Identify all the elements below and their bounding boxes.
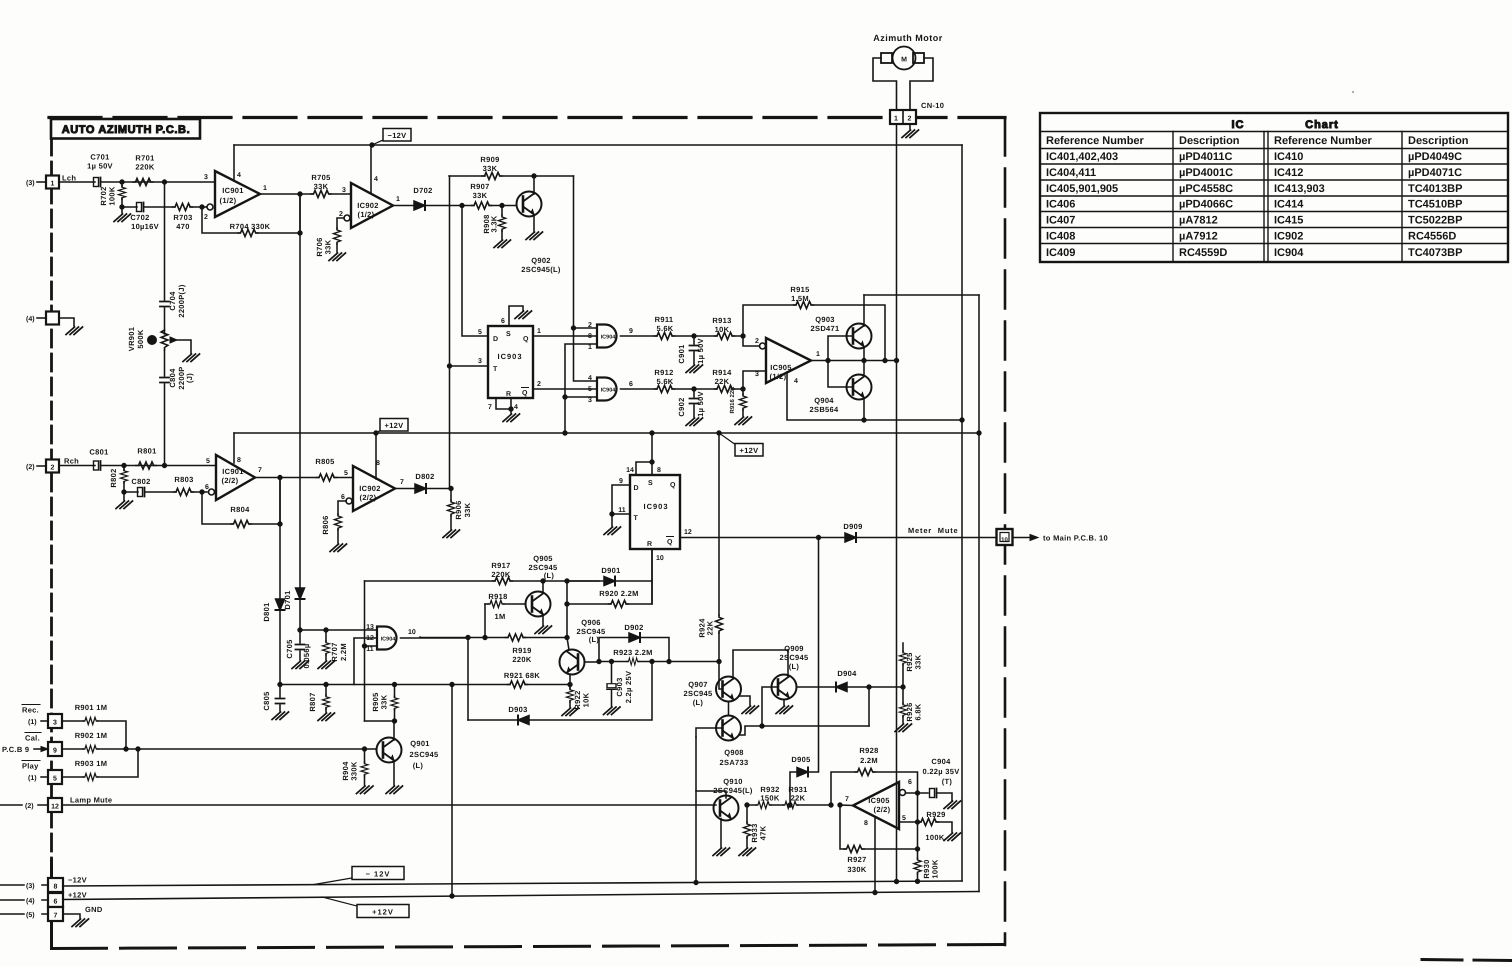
wire output node down through D801 — [279, 478, 281, 685]
gate3 pin13 input row — [300, 629, 377, 631]
resistor R916 with ground — [742, 389, 744, 416]
svg-text:(2): (2) — [25, 802, 34, 810]
wire D702 node to R907 row — [462, 205, 517, 207]
svg-text:R703: R703 — [173, 213, 192, 222]
resistor R907 — [472, 202, 492, 209]
R917 row — [365, 580, 600, 582]
svg-text:TC4510BP: TC4510BP — [1408, 199, 1462, 211]
svg-text:(4): (4) — [26, 897, 35, 905]
svg-text:8: 8 — [657, 467, 661, 474]
connector 10 (output) — [997, 529, 1013, 545]
+12V flag first — [376, 430, 381, 433]
node output/Q903 base riser — [826, 358, 830, 362]
IC903#1 pin 3 wire (T input) — [450, 365, 489, 367]
capacitor C802 — [138, 488, 145, 497]
resistor R915 feedback — [794, 301, 814, 308]
svg-text:12: 12 — [51, 804, 59, 811]
feedback wire R704 — [202, 194, 300, 233]
svg-text:7: 7 — [488, 404, 492, 411]
wire Q901 emitter to ground — [393, 761, 395, 786]
wire riser-to-R905 node link — [365, 720, 395, 722]
svg-text:6: 6 — [629, 381, 633, 388]
node IC905(2/2) pin8 on +12V rail — [873, 890, 877, 894]
wire motor left lead — [873, 58, 897, 110]
svg-text:(2/2): (2/2) — [874, 805, 891, 814]
svg-text:Q907: Q907 — [688, 680, 708, 689]
wire IC902(2/2) pin8 to +12V bus — [375, 433, 377, 479]
svg-text:D902: D902 — [624, 623, 643, 632]
svg-text:Lch: Lch — [62, 174, 76, 183]
svg-text:3: 3 — [204, 174, 208, 181]
flip-flop IC903 (second) — [630, 475, 680, 549]
svg-text:IC901: IC901 — [222, 186, 244, 195]
svg-text:Cal.: Cal. — [25, 734, 40, 743]
svg-text:(1): (1) — [28, 718, 37, 726]
svg-text:D801: D801 — [262, 602, 271, 621]
node R925/R926/D904 — [901, 685, 905, 689]
svg-text:D903: D903 — [508, 705, 527, 714]
node inverting input IC901(2/2) — [200, 490, 204, 494]
svg-text:10: 10 — [1001, 537, 1008, 544]
op-amp IC902 (2/2) — [353, 466, 395, 511]
svg-text:T: T — [493, 366, 498, 373]
svg-text:+12V: +12V — [740, 446, 759, 455]
svg-text:Q: Q — [670, 482, 676, 489]
gate3 pin11 wire — [365, 645, 378, 647]
wire Lch input row — [59, 181, 215, 183]
svg-text:R929: R929 — [926, 810, 945, 819]
svg-text:C702: C702 — [130, 213, 149, 222]
svg-text:6.8K: 6.8K — [914, 703, 923, 720]
svg-text:D904: D904 — [837, 669, 857, 678]
svg-text:R801: R801 — [137, 447, 156, 456]
resistor R932 — [756, 801, 771, 808]
wire Q909 collector riser — [787, 650, 789, 676]
node (4) stub — [37, 317, 46, 319]
wire Q906 emitter — [569, 675, 571, 689]
svg-text:R919: R919 — [512, 646, 531, 655]
IC903#2 pin 9 D wire — [612, 485, 630, 514]
AND gate IC904 (third) — [377, 627, 397, 650]
svg-text:10K: 10K — [582, 692, 591, 707]
wire IC901(2/2) output row — [255, 477, 353, 479]
+12V bottom rail — [63, 892, 979, 900]
svg-text:7: 7 — [400, 479, 404, 486]
ground at CN-10 pin 2 — [909, 124, 911, 129]
svg-text:C705: C705 — [285, 639, 294, 658]
resistor R805 — [317, 474, 337, 481]
svg-text:220K: 220K — [491, 570, 510, 579]
svg-text:22K: 22K — [791, 794, 806, 803]
wire R930 riser — [917, 793, 919, 881]
diode D901 row — [567, 549, 652, 581]
svg-text:1: 1 — [537, 328, 541, 335]
svg-text:220K: 220K — [512, 655, 531, 664]
capacitor C902 with ground — [693, 389, 695, 417]
gate1 output row R911 — [621, 335, 744, 337]
node Q905 collector — [541, 579, 545, 583]
svg-text:R909: R909 — [480, 155, 499, 164]
IC903#1 pin 5 wire (D input) — [462, 206, 488, 337]
node R907/R908 — [500, 203, 504, 207]
svg-text:Description: Description — [1179, 135, 1240, 147]
node R905 riser — [392, 682, 396, 686]
wire IC901 pin4 to -12V rail — [233, 145, 235, 181]
svg-text:IC901: IC901 — [222, 467, 244, 476]
svg-text:D702: D702 — [413, 186, 432, 195]
svg-text:(3): (3) — [26, 179, 35, 187]
resistor R912 — [655, 385, 675, 392]
svg-text:AUTO AZIMUTH P.C.B.: AUTO AZIMUTH P.C.B. — [62, 124, 191, 136]
potentiometer VR901 500K — [161, 330, 168, 350]
resistor R933 with ground — [746, 805, 748, 847]
connector CN-10 — [890, 110, 916, 124]
wire Q909 base to Q908 emitter row — [762, 687, 778, 726]
ground at connector 7 — [63, 914, 80, 918]
node C903 — [609, 659, 613, 663]
PCB outline dashed border right — [1004, 118, 1007, 946]
svg-text:R707: R707 — [330, 642, 339, 661]
gate2 pin3 tie wire — [565, 396, 597, 398]
svg-text:3: 3 — [755, 371, 759, 378]
svg-text:4: 4 — [237, 172, 241, 179]
svg-text:1.5M: 1.5M — [791, 294, 809, 303]
svg-text:IC904: IC904 — [381, 637, 397, 643]
node C805 — [278, 682, 282, 686]
wire motor right lead — [910, 58, 933, 110]
svg-text:Q905: Q905 — [533, 554, 553, 563]
svg-text:Q903: Q903 — [815, 315, 835, 324]
svg-text:R928: R928 — [859, 746, 878, 755]
node C902 — [692, 387, 696, 391]
svg-text:220K: 220K — [135, 163, 154, 172]
wire Q903 collector to +12V top — [863, 295, 865, 326]
svg-text:33K: 33K — [380, 694, 389, 709]
svg-text:1: 1 — [816, 351, 820, 358]
op-amp IC901 (1/2) — [207, 204, 213, 210]
diode D802 — [415, 484, 426, 493]
wire Q908 base to Q910 collector — [696, 728, 723, 737]
svg-text:IC905: IC905 — [770, 363, 792, 372]
resistor R914 — [715, 385, 735, 392]
svg-text:µA7812: µA7812 — [1179, 215, 1218, 227]
svg-text:100K: 100K — [925, 833, 944, 842]
resistor R901 — [83, 717, 98, 724]
svg-text:8: 8 — [588, 333, 592, 340]
connector 12 (Lamp Mute) — [48, 798, 62, 812]
PCB outline dashed border top — [49, 116, 1005, 119]
R923 row — [599, 661, 719, 663]
transistor Q908 — [716, 716, 741, 741]
svg-text:−12V: −12V — [68, 876, 87, 885]
svg-text:5: 5 — [53, 776, 57, 783]
svg-text:Chart: Chart — [1305, 119, 1339, 131]
svg-text:100K: 100K — [108, 186, 117, 205]
node bus/IC902(2/2) pin8 — [374, 431, 378, 435]
svg-text:µPD4066C: µPD4066C — [1179, 199, 1233, 211]
resistor R913 — [715, 332, 735, 339]
svg-text:Q906: Q906 — [581, 618, 601, 627]
wire Q908 emitter row — [739, 726, 869, 735]
node R904 — [362, 747, 366, 751]
IC Chart table header row — [1046, 135, 1469, 147]
resistor R707 with ground — [325, 630, 327, 660]
flip-flop IC903 (first) — [488, 326, 533, 398]
C805/R921 common row — [280, 684, 570, 686]
svg-text:500K: 500K — [136, 329, 145, 348]
svg-text:R903 1M: R903 1M — [75, 759, 108, 768]
svg-text:(L): (L) — [589, 635, 600, 644]
svg-text:C701: C701 — [90, 153, 109, 162]
capacitor C702 — [137, 203, 144, 212]
IC903#2 pin 12 Qbar wire to Meter Mute — [680, 537, 997, 539]
PCB outline dashed border bottom — [52, 945, 1006, 949]
svg-text:1µ 50V: 1µ 50V — [696, 338, 705, 364]
svg-text:22K: 22K — [706, 620, 715, 635]
svg-text:R803: R803 — [174, 475, 193, 484]
svg-text:8: 8 — [864, 820, 868, 827]
svg-text:1: 1 — [396, 196, 400, 203]
svg-text:D901: D901 — [601, 566, 620, 575]
resistor R908 with ground — [501, 206, 503, 240]
svg-text:IC404,411: IC404,411 — [1046, 167, 1096, 179]
svg-text:R804: R804 — [230, 505, 250, 514]
svg-text:RC4559D: RC4559D — [1179, 247, 1227, 259]
node D904 branch riser — [867, 685, 871, 689]
svg-text:(L): (L) — [693, 698, 704, 707]
svg-text:14: 14 — [626, 467, 634, 474]
svg-text:C805: C805 — [262, 691, 271, 710]
resistor R922 with ground — [566, 688, 573, 702]
+12V collector rail top — [864, 294, 979, 296]
svg-text:330K: 330K — [350, 761, 359, 780]
wire long vertical D802 node to R909 left / IC903 T — [449, 176, 451, 488]
svg-text:R921 68K: R921 68K — [504, 671, 540, 680]
transistor Q906 — [560, 650, 585, 675]
svg-text:5: 5 — [206, 458, 210, 465]
svg-text:5: 5 — [588, 386, 592, 393]
transistor Q909 — [772, 675, 797, 700]
+12V flag second — [719, 433, 736, 445]
resistor R801 — [136, 462, 156, 469]
svg-text:Rec.: Rec. — [22, 706, 39, 715]
stray dash fragment bottom right — [1422, 960, 1512, 961]
svg-text:(2/2): (2/2) — [360, 493, 377, 502]
svg-text:22K: 22K — [715, 377, 730, 386]
node D905 riser on meter mute row — [816, 535, 820, 539]
node +12V riser on rail — [450, 894, 454, 898]
node D903 riser — [466, 635, 470, 639]
wire Cal row — [62, 748, 376, 750]
svg-text:2SC945(L): 2SC945(L) — [521, 265, 561, 274]
svg-text:(J): (J) — [185, 373, 194, 383]
wire inverting input node to bubble and R915 — [743, 305, 796, 346]
svg-text:1µ 50V: 1µ 50V — [696, 391, 705, 417]
svg-text:33K: 33K — [463, 502, 472, 517]
svg-text:S: S — [648, 480, 653, 487]
svg-text:9: 9 — [53, 748, 57, 755]
wire base row R932/R931 — [747, 804, 831, 806]
feedback wire R804 — [202, 478, 280, 525]
svg-text:IC902: IC902 — [1274, 231, 1303, 243]
wire C802 row — [124, 491, 202, 493]
svg-text:TC5022BP: TC5022BP — [1408, 215, 1462, 227]
node D901 row left — [565, 579, 569, 583]
node pin5/R930 riser — [915, 820, 919, 824]
svg-text:D802: D802 — [415, 472, 434, 481]
transistor Q901 — [377, 738, 402, 763]
arrow to Main PCB — [1013, 537, 1031, 539]
op-amp IC901 (2/2) — [209, 489, 215, 495]
node C901 — [692, 334, 696, 338]
IC Chart table grid lines — [1040, 132, 1508, 263]
node D702 output — [460, 203, 464, 207]
node +12V feed riser — [450, 682, 454, 686]
svg-text:IC: IC — [1232, 119, 1245, 131]
svg-text:R902 1M: R902 1M — [75, 731, 108, 740]
wire input row to apex — [840, 804, 853, 807]
wire Q907/Q908 link — [728, 702, 730, 716]
svg-text:R807: R807 — [308, 692, 317, 711]
resistor R911 — [655, 332, 675, 339]
node motor wire end on -12V rail — [894, 879, 898, 883]
capacitor C701 — [94, 178, 101, 187]
svg-text:R: R — [647, 541, 652, 548]
diode D801 (pointing down) — [276, 599, 285, 610]
resistor R931 — [783, 801, 798, 808]
resistor R904 with ground — [364, 749, 366, 785]
svg-text:2SD471: 2SD471 — [811, 324, 840, 333]
svg-text:2SC945(L): 2SC945(L) — [713, 786, 753, 795]
svg-text:470: 470 — [176, 222, 189, 231]
+12V rail flag — [322, 897, 357, 906]
D902 bypass row — [599, 638, 669, 662]
svg-text:3: 3 — [588, 397, 592, 404]
-12V bottom rail — [63, 881, 962, 886]
svg-text:Q: Q — [667, 539, 673, 546]
capacitor C705 with ground — [299, 630, 301, 660]
wire R924 node to Q907 base — [719, 662, 723, 690]
svg-text:IC412: IC412 — [1274, 167, 1303, 179]
svg-text:6: 6 — [501, 318, 505, 325]
svg-text:C904: C904 — [931, 757, 951, 766]
wire IC902 pin4 to -12V rail — [370, 145, 372, 193]
svg-text:(4): (4) — [26, 315, 35, 323]
svg-text:R901 1M: R901 1M — [75, 703, 108, 712]
node bus right end — [977, 431, 981, 435]
svg-text:12: 12 — [684, 529, 692, 536]
svg-text:5: 5 — [478, 329, 482, 336]
svg-text:D: D — [493, 336, 498, 343]
svg-text:µPD4049C: µPD4049C — [1408, 151, 1462, 163]
svg-text:R: R — [506, 391, 511, 398]
svg-text:IC405,901,905: IC405,901,905 — [1046, 183, 1118, 195]
svg-text:(1): (1) — [28, 774, 37, 782]
node R927/R930 — [915, 847, 919, 851]
node R901 mix — [124, 747, 128, 751]
svg-text:(3): (3) — [26, 882, 35, 890]
svg-text:2.2M: 2.2M — [860, 756, 878, 765]
node R924 base node — [717, 659, 721, 663]
node R932/R931/D905 — [788, 803, 792, 807]
wire Q904 collector to output node — [863, 361, 865, 375]
svg-text:(2): (2) — [26, 463, 35, 471]
node junction R802/C802 — [122, 490, 126, 494]
svg-text:µPC4558C: µPC4558C — [1179, 183, 1233, 195]
svg-text:CN-10: CN-10 — [921, 101, 944, 110]
resistor R903 — [83, 773, 98, 780]
svg-text:2: 2 — [204, 214, 208, 221]
capacitor C904 with ground — [930, 789, 937, 798]
node R807 — [324, 682, 328, 686]
IC903#1 pin 7/4 ground bracket — [496, 398, 511, 413]
node -12V flag junction — [370, 143, 374, 147]
node D903 riser top — [650, 659, 654, 663]
-12V rail flag — [314, 878, 352, 885]
svg-text:47K: 47K — [759, 825, 768, 840]
wire Q906 base to D902/R923 node — [585, 661, 599, 663]
wire D903 riser — [467, 638, 469, 721]
svg-text:9: 9 — [619, 478, 623, 485]
node junction R701/C704 chain — [162, 180, 166, 184]
svg-text:11: 11 — [366, 646, 374, 653]
wire Q909 to D904 — [797, 686, 836, 688]
wire riser to Q906 collector — [567, 604, 569, 650]
svg-text:IC410: IC410 — [1274, 151, 1303, 163]
svg-text:9: 9 — [629, 328, 633, 335]
svg-text:C902: C902 — [677, 397, 686, 416]
svg-text:(L): (L) — [544, 571, 555, 580]
svg-text:1µ 50V: 1µ 50V — [87, 162, 113, 171]
svg-text:Q901: Q901 — [410, 739, 430, 748]
resistor R803 — [174, 488, 194, 495]
svg-text:1: 1 — [263, 185, 267, 192]
resistor R919 — [485, 637, 567, 639]
svg-text:D905: D905 — [791, 755, 810, 764]
wire Q907 emitter to ground — [739, 696, 750, 705]
svg-text:0.056µ: 0.056µ — [302, 644, 311, 669]
diode D903 (pointing left) — [518, 716, 529, 725]
ground at connector 4 — [59, 318, 74, 326]
svg-text:Lamp Mute: Lamp Mute — [70, 796, 112, 805]
svg-text:R911: R911 — [655, 315, 674, 324]
-12V right side rail — [961, 145, 963, 881]
IC Chart table data rows — [1046, 151, 1462, 259]
transistor Q907 — [716, 677, 741, 702]
wire R927 row — [840, 805, 918, 849]
diode D904 (pointing left) — [836, 683, 847, 692]
svg-text:IC902: IC902 — [357, 201, 379, 210]
svg-text:R701: R701 — [135, 154, 154, 163]
svg-text:2.2µ 25V: 2.2µ 25V — [624, 671, 633, 704]
PCB outline dashed border left — [50, 138, 53, 949]
resistor R905 — [394, 685, 396, 722]
wire R909 right corner down to IC904 gate inputs — [573, 176, 575, 328]
svg-text:IC905: IC905 — [868, 796, 890, 805]
transistor Q910 — [714, 796, 739, 821]
node junction C801/R802 — [122, 463, 126, 467]
ground below C702 node — [121, 207, 123, 213]
svg-text:’: ’ — [1352, 91, 1354, 98]
+12V right side rail — [978, 295, 980, 892]
+12V distribution bus — [234, 432, 979, 434]
diode D909 — [845, 533, 856, 542]
svg-text:150K: 150K — [760, 794, 779, 803]
svg-text:VR901: VR901 — [127, 327, 136, 351]
svg-text:5.6K: 5.6K — [656, 377, 673, 386]
wire C702 row — [122, 206, 202, 208]
svg-text:Q908: Q908 — [724, 748, 744, 757]
